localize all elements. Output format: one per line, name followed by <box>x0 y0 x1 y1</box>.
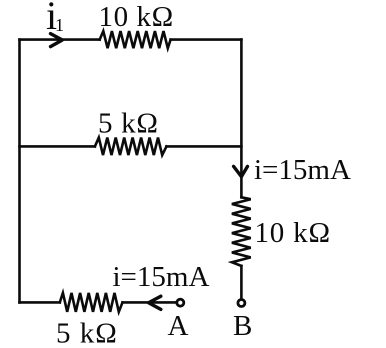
resistor 10k top <box>100 31 171 48</box>
svg-text:1: 1 <box>55 15 64 35</box>
svg-text:i=15mA: i=15mA <box>254 154 351 186</box>
terminal B <box>238 300 245 307</box>
svg-text:10 kΩ: 10 kΩ <box>99 1 174 33</box>
svg-text:i=15mA: i=15mA <box>113 261 210 293</box>
wire top right segment <box>171 38 242 41</box>
svg-text:5 kΩ: 5 kΩ <box>56 318 118 348</box>
wire bottom right segment <box>123 301 176 304</box>
resistor 5k middle <box>95 138 167 156</box>
svg-text:A: A <box>168 310 189 342</box>
wire right vertical upper <box>240 40 243 198</box>
terminal A <box>177 299 184 306</box>
label i1 <box>46 0 64 38</box>
wire middle left segment <box>20 145 95 148</box>
resistor 5k bottom <box>60 293 123 312</box>
resistor 10k vertical <box>232 197 251 266</box>
wire right vertical lower <box>240 266 243 298</box>
arrow i1 right on top wire <box>51 34 63 47</box>
svg-text:B: B <box>233 310 252 342</box>
svg-text:10 kΩ: 10 kΩ <box>255 217 331 249</box>
wire middle right segment <box>167 145 242 148</box>
wire bottom left segment <box>20 301 60 304</box>
wire top left segment <box>20 38 100 41</box>
arrow i left on bottom wire <box>149 296 161 309</box>
arrow i down on right wire <box>234 166 248 176</box>
svg-text:5 kΩ: 5 kΩ <box>98 108 159 140</box>
wire left vertical <box>18 40 21 303</box>
